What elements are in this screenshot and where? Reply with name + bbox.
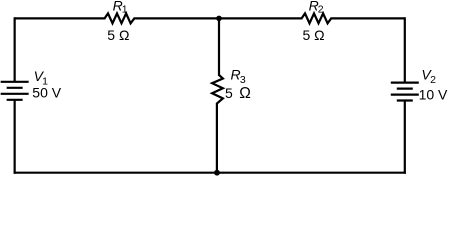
svg-text:V2: V2: [421, 67, 436, 86]
svg-text:50 V: 50 V: [32, 85, 61, 101]
svg-text:10 V: 10 V: [419, 87, 448, 103]
svg-text:5 Ω: 5 Ω: [303, 27, 325, 43]
svg-text:5: 5: [225, 85, 233, 101]
svg-text:R1: R1: [113, 0, 128, 16]
svg-text:R2: R2: [309, 0, 324, 16]
svg-text:Ω: Ω: [239, 85, 251, 102]
svg-text:R3: R3: [231, 67, 246, 86]
svg-text:5 Ω: 5 Ω: [107, 27, 129, 43]
